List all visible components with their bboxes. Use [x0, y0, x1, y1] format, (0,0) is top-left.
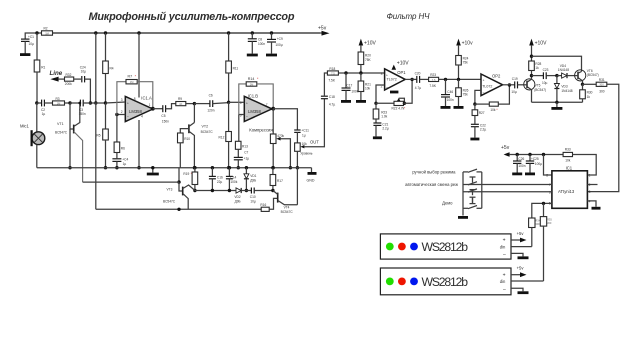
svg-text:+5v: +5v	[517, 231, 525, 236]
svg-text:+: +	[483, 78, 485, 82]
wire VT stage bottom	[532, 101, 583, 109]
capacitor C17 100n	[341, 71, 359, 101]
+5v supply MCU	[501, 145, 563, 157]
svg-text:R18: R18	[329, 67, 335, 71]
svg-text:R35: R35	[547, 217, 552, 221]
svg-text:WS2812b: WS2812b	[422, 240, 469, 254]
node VT6 emitter	[581, 83, 584, 86]
svg-text:R31: R31	[599, 78, 605, 82]
svg-text:IC1: IC1	[566, 166, 573, 171]
svg-text:–: –	[386, 85, 388, 89]
op-amp IC1.A LM358	[106, 95, 153, 121]
transistor VT4 BC547C	[273, 168, 298, 214]
ground OP1	[390, 91, 398, 94]
svg-text:+C1: +C1	[28, 35, 34, 39]
svg-text:+C9: +C9	[277, 37, 283, 41]
resistor R20 75K	[358, 52, 371, 75]
svg-text:R10: R10	[184, 137, 190, 141]
resistor R30	[580, 84, 593, 102]
svg-text:3: 3	[589, 190, 591, 194]
svg-text:75K: 75K	[365, 58, 372, 62]
svg-text:C7: C7	[244, 151, 248, 155]
svg-text:BC547C: BC547C	[163, 199, 176, 203]
svg-text:Демо: Демо	[442, 200, 453, 205]
svg-text:Фильтр НЧ: Фильтр НЧ	[387, 12, 431, 21]
resistor R26 75k	[454, 79, 469, 107]
svg-text:IC1.B: IC1.B	[248, 94, 259, 99]
svg-text:3: 3	[121, 98, 123, 102]
svg-text:Микрофонный усилитель-компресс: Микрофонный усилитель-компрессор	[89, 11, 295, 23]
pin5 wire to resistors	[532, 202, 552, 218]
node R9/C6/VT2	[193, 102, 196, 105]
resistor R33 10k	[563, 147, 596, 175]
wire rail R2 to arrow	[53, 32, 322, 34]
vertical x105 R4/R5	[97, 31, 114, 169]
svg-text:–: –	[483, 91, 485, 95]
svg-text:–: –	[503, 286, 506, 292]
svg-text:+10V: +10V	[397, 61, 409, 67]
svg-text:R17: R17	[277, 179, 283, 183]
svg-text:75k: 75k	[463, 93, 469, 97]
ground symbol main	[147, 166, 159, 174]
resistor R11	[226, 61, 232, 73]
pin4 ground	[587, 201, 600, 208]
svg-text:R33: R33	[565, 147, 571, 151]
resistor R35 300	[540, 217, 552, 281]
resistor R18 7.5K	[327, 67, 384, 83]
svg-text:+: +	[503, 272, 506, 278]
transistor VT1 BC547C	[55, 102, 83, 183]
capacitor C3	[70, 100, 96, 116]
svg-text:1k: 1k	[535, 66, 539, 70]
svg-text:300: 300	[547, 221, 552, 225]
svg-text:VT3: VT3	[167, 188, 173, 192]
svg-text:VT2: VT2	[202, 125, 209, 129]
op-amp OP1 TL072	[381, 69, 407, 90]
node VT1 bias bottom	[68, 166, 71, 169]
svg-text:(BC547): (BC547)	[534, 88, 546, 92]
node IC1.B output	[271, 107, 275, 111]
switch SA2 wire to pin7	[463, 184, 552, 186]
capacitor C23 10µ	[532, 68, 559, 85]
svg-text:VD3: VD3	[561, 84, 567, 88]
vertical x228 R11/R12	[219, 31, 239, 169]
svg-text:R32: R32	[66, 73, 72, 77]
switch rail left	[462, 172, 464, 216]
feedback loop IC1.B with resistor R14	[239, 77, 273, 115]
svg-text:75k: 75k	[463, 61, 469, 65]
svg-text:7: 7	[266, 103, 268, 107]
op-amp IC1.B LM358	[229, 94, 272, 122]
resistor R4	[103, 61, 109, 74]
svg-text:10k: 10k	[490, 108, 496, 112]
svg-text:Д9Б: Д9Б	[250, 178, 256, 182]
resistor R12	[228, 102, 230, 131]
svg-text:C5: C5	[161, 114, 165, 118]
svg-text:10µ: 10µ	[29, 42, 35, 46]
resistor R2	[42, 27, 53, 36]
capacitor C16 22µ	[209, 166, 223, 192]
svg-text:+C4: +C4	[122, 157, 128, 161]
svg-text:+10V: +10V	[364, 41, 376, 47]
svg-text:+C11: +C11	[301, 129, 309, 133]
transistor VT3 BC547C	[163, 168, 195, 210]
wire OP1 output	[405, 78, 417, 80]
svg-text:C46: C46	[447, 90, 453, 94]
svg-text:ATtyni13: ATtyni13	[558, 189, 575, 194]
svg-text:100n: 100n	[447, 98, 454, 102]
capacitor C10 10µ	[250, 188, 273, 204]
svg-text:200k: 200k	[65, 82, 72, 86]
svg-text:100n: 100n	[258, 42, 265, 46]
svg-text:R2: R2	[44, 27, 48, 31]
svg-text:R4: R4	[110, 67, 114, 71]
svg-text:+5v: +5v	[501, 145, 510, 151]
svg-text:TL072: TL072	[482, 84, 492, 88]
svg-text:1µ: 1µ	[302, 134, 306, 138]
svg-text:470k: 470k	[277, 134, 284, 138]
capacitor C9 100µ	[266, 31, 283, 55]
svg-text:BC547C: BC547C	[201, 130, 214, 134]
svg-text:din: din	[500, 245, 506, 250]
svg-text:300: 300	[535, 222, 540, 226]
svg-text:1µ: 1µ	[123, 162, 127, 166]
transistor VT2 BC547C	[180, 104, 213, 170]
microphone Mic1	[20, 103, 45, 168]
ground strip2	[511, 288, 529, 292]
feedback loop OP1 trimmer R22 4.7k	[374, 78, 414, 111]
trimmer R15 470k	[270, 109, 292, 170]
resistor R6 and capacitor C4 chain	[112, 115, 128, 170]
svg-text:–: –	[127, 114, 129, 118]
node mic/C2	[35, 101, 38, 104]
svg-text:ручной выбор режима: ручной выбор режима	[412, 170, 456, 175]
svg-text:2.2µ: 2.2µ	[480, 128, 486, 132]
LED green 2	[386, 278, 394, 286]
svg-text:10µ: 10µ	[81, 69, 87, 73]
resistor R10	[178, 133, 191, 168]
svg-text:1k: 1k	[587, 95, 591, 99]
wire envelope to ATtiny pin3	[587, 84, 618, 191]
LED blue 1	[410, 243, 418, 251]
svg-text:C10: C10	[250, 195, 256, 199]
svg-text:10µ: 10µ	[542, 81, 548, 85]
svg-text:10µ: 10µ	[250, 200, 256, 204]
svg-text:OUT: OUT	[310, 139, 319, 144]
LED red 2	[398, 278, 406, 286]
resistor R3	[53, 97, 71, 106]
svg-text:TL072: TL072	[387, 77, 397, 81]
svg-text:+5v: +5v	[318, 26, 327, 32]
svg-text:R14: R14	[248, 77, 255, 81]
capacitor C25 100µ	[525, 153, 542, 174]
LED red 1	[398, 243, 406, 251]
svg-text:1: 1	[149, 103, 151, 107]
switch SA3 wire to pin6	[463, 191, 552, 193]
wire OP2 output	[503, 84, 515, 86]
svg-text:1µ: 1µ	[42, 112, 46, 116]
svg-text:100n: 100n	[518, 164, 525, 168]
wire top link to VT6 collector	[532, 56, 582, 71]
+5v supply rail	[25, 26, 329, 40]
LED green 1	[386, 243, 394, 251]
resistor R1	[34, 33, 45, 103]
svg-text:OP1: OP1	[397, 70, 406, 75]
svg-text:10k: 10k	[565, 158, 571, 162]
svg-text:R16: R16	[260, 203, 266, 207]
svg-text:–: –	[503, 251, 506, 257]
svg-text:22µ: 22µ	[217, 180, 223, 184]
capacitor C2	[37, 100, 53, 116]
svg-text:C23: C23	[543, 68, 549, 72]
svg-text:VD1: VD1	[250, 174, 256, 178]
diode VD2 Д9Б	[234, 188, 251, 204]
svg-text:R1: R1	[41, 65, 45, 69]
ground strip1	[511, 253, 529, 257]
svg-text:BC547C: BC547C	[281, 210, 294, 214]
svg-text:Компрессия: Компрессия	[249, 127, 272, 132]
resistor R24 75k	[456, 56, 469, 82]
svg-text:10k: 10k	[365, 87, 371, 91]
svg-text:300: 300	[599, 90, 605, 94]
svg-text:10µ: 10µ	[511, 90, 517, 94]
switch rail right	[481, 172, 483, 208]
IC1 ATtiny13	[546, 166, 590, 209]
resistor R34 300	[529, 218, 541, 247]
ground rail bottom	[37, 167, 312, 169]
svg-text:1M: 1M	[130, 80, 134, 84]
svg-text:Mic1: Mic1	[20, 124, 30, 129]
svg-text:1.0k: 1.0k	[381, 115, 387, 119]
svg-text:1M: 1M	[57, 101, 61, 105]
+5v arrow	[322, 31, 330, 36]
pin2 stub	[587, 184, 597, 186]
feedback loop IC1.A with resistor R7	[115, 75, 153, 117]
resistor R5	[105, 103, 107, 129]
wire VCC to pin8	[542, 153, 552, 175]
wire line C	[96, 208, 261, 211]
svg-text:R19: R19	[183, 172, 189, 176]
svg-text:+1µ: +1µ	[244, 157, 250, 161]
switch SA4	[463, 198, 482, 209]
node Line drop	[89, 101, 92, 104]
resistor R19	[183, 166, 197, 192]
svg-text:R22 4.7k: R22 4.7k	[392, 107, 405, 111]
svg-text:120n: 120n	[207, 108, 214, 112]
svg-text:R12: R12	[219, 136, 225, 140]
svg-text:R9: R9	[178, 97, 182, 101]
svg-text:300: 300	[599, 83, 604, 87]
GND stub right	[307, 168, 317, 183]
svg-text:R27: R27	[479, 111, 485, 115]
trimmer R ( Уровень ) 10k	[295, 142, 313, 169]
resistor R16	[260, 198, 277, 211]
resistor R28	[529, 61, 542, 77]
svg-text:1: 1	[589, 173, 591, 177]
svg-text:Уровень: Уровень	[300, 152, 313, 156]
svg-text:R11: R11	[233, 66, 239, 70]
resistor R23b 7.5K	[429, 73, 481, 88]
resistor R13 / capacitor C7 chain	[234, 115, 249, 170]
capacitor C8 100n	[247, 31, 266, 55]
svg-text:1N4148: 1N4148	[561, 89, 572, 93]
svg-text:7.5K: 7.5K	[429, 84, 436, 88]
svg-text:2: 2	[121, 110, 123, 114]
svg-text:100µ: 100µ	[275, 43, 282, 47]
svg-text:4: 4	[141, 115, 143, 119]
resistor R17	[270, 166, 283, 192]
svg-text:+10V: +10V	[535, 41, 547, 47]
switch SA3	[468, 189, 477, 203]
svg-text:1K: 1K	[179, 102, 182, 106]
wire IC1.A V+ from rail	[137, 31, 140, 97]
svg-text:4.7µ: 4.7µ	[415, 86, 421, 90]
svg-text:+: +	[246, 102, 248, 106]
svg-text:R3: R3	[56, 97, 60, 101]
ground switches	[458, 216, 468, 219]
+5v arrow strip1	[511, 231, 527, 243]
svg-text:C6: C6	[209, 93, 213, 97]
capacitor C1	[21, 35, 34, 54]
svg-text:BC547C: BC547C	[55, 131, 68, 135]
svg-text:C14: C14	[230, 175, 236, 179]
svg-text:C16: C16	[217, 175, 223, 179]
capacitor C5	[153, 104, 176, 124]
svg-text:8: 8	[134, 97, 136, 101]
svg-text:R6: R6	[121, 147, 125, 151]
svg-text:7.5K: 7.5K	[328, 78, 335, 82]
svg-text:WS2812b: WS2812b	[422, 275, 469, 289]
resistor R27 / capacitor C22 chain	[470, 104, 486, 139]
capacitor C19 10µ	[511, 77, 523, 94]
svg-text:C18: C18	[329, 95, 335, 99]
capacitor C20 4.7µ	[415, 71, 429, 89]
svg-text:+5v: +5v	[517, 266, 525, 271]
svg-text:6: 6	[549, 190, 551, 194]
wire din1	[511, 246, 532, 248]
svg-text:7.5: 7.5	[331, 71, 335, 75]
svg-text:C20: C20	[415, 71, 421, 75]
capacitor C46 100n	[441, 78, 454, 108]
LED blue 2	[410, 278, 418, 286]
switch SA1	[463, 169, 482, 183]
svg-text:100µ: 100µ	[535, 162, 542, 166]
+10V supply left divider	[359, 39, 377, 52]
svg-text:+: +	[503, 238, 506, 244]
svg-text:VT4: VT4	[284, 206, 290, 210]
resistor R9	[176, 97, 195, 106]
svg-text:(BC547): (BC547)	[587, 73, 599, 77]
svg-text:R7: R7	[128, 75, 133, 79]
capacitor C11	[273, 109, 309, 143]
svg-text:IC1.A: IC1.A	[141, 95, 152, 100]
svg-text:2.2µ: 2.2µ	[382, 127, 388, 131]
capacitor C26 100n	[512, 153, 526, 174]
svg-text:8: 8	[546, 173, 548, 177]
WS2812b strip 2	[380, 268, 511, 295]
transistor VT6 BC547	[575, 69, 599, 84]
svg-text:–: –	[246, 114, 248, 118]
WS2812b strip 1	[380, 234, 511, 259]
wire vertical x96 rail-to-signal	[94, 31, 97, 209]
Line input arrow	[50, 70, 65, 82]
svg-text:C8: C8	[258, 37, 262, 41]
op-amp OP2 TL072	[481, 73, 503, 95]
svg-text:2M: 2M	[250, 82, 254, 86]
resistor R23 / capacitor C21 chain	[373, 103, 389, 138]
svg-text:LM358: LM358	[129, 109, 142, 114]
svg-text:LM358: LM358	[248, 109, 261, 114]
svg-text:C19: C19	[512, 77, 518, 81]
wire line B	[195, 190, 236, 192]
svg-text:100k: 100k	[230, 180, 237, 184]
diode VD4 1N4148	[557, 64, 575, 78]
svg-text:R5: R5	[97, 134, 101, 138]
svg-text:+: +	[127, 102, 129, 106]
node IC1.A output	[151, 107, 155, 111]
svg-text:4.7µ: 4.7µ	[329, 102, 335, 106]
diode VD1 Д9Б	[244, 166, 257, 192]
switch SA2	[468, 182, 477, 196]
wire IC1.A pin4 to ground rail	[137, 120, 140, 169]
wire din2	[511, 280, 544, 282]
svg-text:R23: R23	[430, 73, 436, 77]
node OUT wire	[304, 99, 324, 147]
svg-text:1N4148: 1N4148	[558, 68, 569, 72]
svg-text:+: +	[386, 73, 388, 77]
+10V arrow OP1	[392, 61, 410, 70]
switches block	[405, 169, 552, 217]
resistor R21	[356, 73, 371, 101]
svg-text:VT5: VT5	[535, 83, 541, 87]
svg-text:1M: 1M	[45, 31, 49, 35]
ground C1	[20, 53, 30, 56]
resistor R32 200k	[65, 73, 82, 86]
svg-text:Д9Б: Д9Б	[235, 200, 241, 204]
svg-text:VT1: VT1	[57, 122, 64, 126]
+5v arrow strip2	[511, 266, 527, 278]
feedback loop OP2 resistor R25 10k	[473, 83, 511, 112]
svg-text:OP2: OP2	[492, 73, 501, 78]
transistor VT5 BC547	[524, 76, 546, 103]
+10V supply VT stage	[529, 39, 547, 61]
diode VD3 1N4148	[554, 76, 572, 103]
resistor R31 300	[583, 78, 607, 93]
capacitor C14 100n	[226, 166, 238, 192]
capacitor C18 4.7µ	[321, 73, 335, 106]
wire line A	[83, 181, 179, 183]
capacitor C24 10µ	[80, 66, 91, 103]
svg-text:GND: GND	[307, 179, 315, 183]
svg-text:din: din	[500, 279, 506, 284]
+10v supply right divider	[456, 39, 473, 56]
node rail-R1	[35, 31, 38, 34]
svg-text:+C25: +C25	[531, 157, 539, 161]
node R3/C3/VT1 base	[68, 101, 71, 104]
wire signal to IC1A	[96, 102, 106, 104]
svg-text:Line: Line	[50, 70, 63, 77]
svg-text:VD2: VD2	[234, 195, 240, 199]
svg-text:R13: R13	[242, 144, 248, 148]
svg-text:150n: 150n	[162, 119, 169, 123]
svg-text:3: 3	[381, 72, 383, 76]
svg-text:автоматическая смена реж: автоматическая смена реж	[405, 182, 458, 187]
capacitor C6	[194, 93, 228, 112]
svg-text:+10v: +10v	[462, 41, 473, 47]
svg-text:C26: C26	[518, 157, 524, 161]
svg-text:7.5: 7.5	[432, 78, 436, 82]
svg-text:C17: C17	[346, 83, 352, 87]
